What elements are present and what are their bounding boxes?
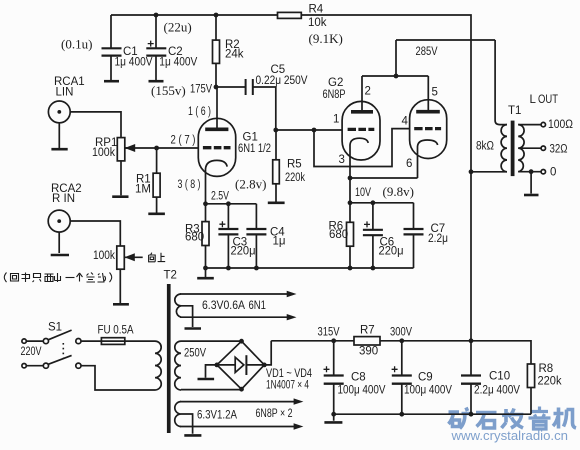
svg-text:6N1: 6N1	[249, 300, 267, 312]
svg-text:6.3V1.2A: 6.3V1.2A	[197, 410, 237, 422]
svg-text:300V: 300V	[390, 327, 412, 339]
svg-text:1 ( 6 ): 1 ( 6 )	[188, 106, 211, 118]
svg-text:680: 680	[185, 232, 204, 244]
svg-text:24k: 24k	[225, 49, 244, 61]
svg-text:T2: T2	[164, 270, 177, 282]
svg-text:390: 390	[359, 346, 378, 358]
svg-text:(2.8v): (2.8v)	[235, 177, 266, 192]
svg-text:0: 0	[550, 167, 556, 179]
svg-text:32Ω: 32Ω	[550, 144, 568, 156]
svg-text:100Ω: 100Ω	[548, 119, 573, 131]
svg-text:1μ: 1μ	[273, 236, 286, 248]
svg-text:220μ: 220μ	[379, 246, 404, 258]
svg-text:C8: C8	[351, 372, 366, 384]
svg-text:1: 1	[333, 114, 339, 126]
svg-text:100μ 400V: 100μ 400V	[404, 385, 452, 397]
svg-text:FU 0.5A: FU 0.5A	[98, 325, 134, 337]
svg-text:4: 4	[402, 116, 409, 128]
svg-text:0.22μ 250V: 0.22μ 250V	[256, 75, 308, 87]
svg-text:2: 2	[365, 86, 371, 98]
svg-text:285V: 285V	[416, 46, 438, 58]
svg-text:3: 3	[339, 154, 345, 166]
svg-text:LIN: LIN	[56, 87, 74, 99]
svg-text:2.2μ: 2.2μ	[428, 233, 448, 245]
svg-text:T1: T1	[508, 105, 521, 117]
svg-text:R IN: R IN	[52, 193, 75, 205]
svg-text:(9.1K): (9.1K)	[309, 31, 343, 46]
svg-text:100k: 100k	[92, 147, 115, 159]
svg-text:6.3V0.6A: 6.3V0.6A	[202, 300, 245, 312]
svg-text:R4: R4	[309, 4, 324, 16]
svg-text:220k: 220k	[285, 172, 305, 184]
svg-text:10k: 10k	[308, 17, 327, 29]
svg-text:C10: C10	[489, 371, 510, 383]
svg-text:6N8P: 6N8P	[323, 89, 346, 101]
svg-text:8kΩ: 8kΩ	[476, 141, 494, 153]
svg-text:L: L	[530, 94, 537, 106]
svg-text:(0.1u): (0.1u)	[61, 37, 92, 52]
svg-text:175V: 175V	[190, 84, 212, 96]
svg-text:250V: 250V	[184, 348, 206, 360]
svg-text:(22u): (22u)	[164, 20, 192, 35]
svg-text:S1: S1	[48, 322, 62, 334]
svg-text:220k: 220k	[538, 376, 562, 388]
svg-text:1M: 1M	[135, 184, 151, 196]
svg-text:220V: 220V	[21, 346, 42, 358]
svg-text:1N4007 × 4: 1N4007 × 4	[266, 380, 309, 392]
svg-text:(9.8v): (9.8v)	[383, 184, 414, 199]
svg-text:(155v): (155v)	[151, 83, 186, 98]
svg-text:680: 680	[329, 229, 348, 241]
svg-text:100k: 100k	[93, 250, 115, 262]
svg-text:10V: 10V	[355, 187, 371, 199]
svg-text:2.2μ 400V: 2.2μ 400V	[474, 385, 520, 397]
svg-text:100μ 400V: 100μ 400V	[338, 385, 386, 397]
svg-text:6N1 1/2: 6N1 1/2	[238, 143, 271, 155]
svg-text:G2: G2	[328, 77, 343, 89]
svg-text:R8: R8	[539, 363, 554, 375]
svg-text:C9: C9	[418, 372, 433, 384]
svg-text:www.crystalradio.cn: www.crystalradio.cn	[450, 428, 568, 443]
svg-text:G1: G1	[243, 132, 258, 144]
svg-text:5: 5	[432, 87, 438, 99]
svg-text:OUT: OUT	[538, 94, 558, 106]
svg-text:1μ 400V: 1μ 400V	[115, 57, 153, 69]
svg-text:2.5V: 2.5V	[211, 191, 229, 203]
svg-text:R7: R7	[360, 325, 375, 337]
svg-text:VD1 ~ VD4: VD1 ~ VD4	[266, 368, 312, 380]
svg-text:6: 6	[406, 158, 412, 170]
svg-text:6N8P × 2: 6N8P × 2	[256, 408, 293, 420]
svg-text:2 ( 7 ): 2 ( 7 )	[171, 135, 196, 147]
svg-text:1μ 400V: 1μ 400V	[159, 57, 197, 69]
svg-text:220μ: 220μ	[231, 246, 256, 258]
svg-text:R5: R5	[287, 159, 302, 171]
svg-text:3 ( 8 ): 3 ( 8 )	[178, 179, 201, 191]
svg-text:315V: 315V	[318, 327, 340, 339]
